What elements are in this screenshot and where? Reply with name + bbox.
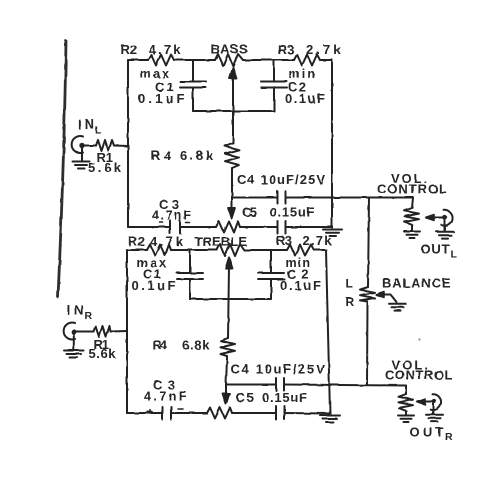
svg-text:R2: R2: [121, 42, 138, 57]
wire: balance rail lower: [366, 302, 369, 385]
wire: right rail (L): [331, 60, 333, 228]
wire: left rail (R): [126, 250, 128, 413]
capacitor C5 (R): [276, 406, 285, 420]
svg-text:0.1uF: 0.1uF: [138, 91, 185, 106]
svg-text:0.1uF: 0.1uF: [132, 278, 176, 293]
output jack OUT_R: [431, 394, 441, 414]
svg-text:4.7k: 4.7k: [150, 234, 184, 249]
resistor R4 (L): [225, 143, 239, 168]
svg-text:4.7nF: 4.7nF: [152, 209, 191, 223]
potentiometer TREBLE (L): [216, 222, 240, 233]
svg-text:C4 10uF/25V: C4 10uF/25V: [237, 172, 325, 187]
resistor R2 (R): [147, 245, 171, 256]
ground at OUT_L: [437, 232, 454, 239]
svg-text:5.6k: 5.6k: [89, 346, 117, 361]
svg-text:4.7k: 4.7k: [149, 42, 182, 57]
svg-text:0.1uF: 0.1uF: [280, 278, 321, 293]
wire: R4 to C4 node (R): [226, 358, 227, 385]
svg-text:OUT: OUT: [410, 425, 444, 440]
ground at BALANCE wiper: [389, 304, 406, 311]
wire: top bus segments (L): [128, 59, 332, 61]
svg-text:BALANCE: BALANCE: [382, 276, 451, 291]
svg-text:R3: R3: [276, 233, 292, 248]
svg-text:L: L: [95, 125, 102, 137]
wiper arrow to bottom pot (R): [223, 385, 230, 405]
wiper arrow of BALANCE pot: [376, 292, 397, 302]
ground at IN_L: [73, 148, 90, 169]
resistor R3 (R): [287, 245, 314, 256]
wiper arrow of TREBLE pot (R): [226, 258, 233, 339]
svg-text:R4: R4: [151, 148, 172, 163]
resistor R1 (L): [96, 140, 114, 151]
svg-text:CONTROL: CONTROL: [377, 182, 447, 197]
wire: bottom bus (L): [128, 226, 332, 228]
capacitor C4 (L): [278, 192, 286, 204]
capacitor C3 (L): [170, 221, 180, 234]
svg-text:C5: C5: [242, 205, 257, 220]
svg-text:0.15uF: 0.15uF: [262, 390, 307, 405]
svg-text:0.15uF: 0.15uF: [270, 205, 315, 220]
potentiometer VOL CONTROL (R): [399, 386, 414, 415]
svg-text:BASS: BASS: [211, 42, 248, 57]
ground at right rail (L): [323, 230, 342, 237]
svg-text:R4: R4: [153, 337, 168, 352]
capacitor C2 (L): [261, 60, 287, 111]
svg-text:L: L: [451, 249, 458, 261]
C3 tick marks (R): [148, 409, 183, 414]
ground below VOL pot (R): [398, 416, 414, 423]
scan artifact: faint speck: [418, 338, 420, 340]
capacitor C3 (R): [162, 407, 171, 420]
wire: top bus segments (R): [127, 249, 326, 251]
resistor R2 (L): [148, 55, 174, 66]
svg-text:R: R: [346, 295, 355, 309]
potentiometer VOL CONTROL (L): [405, 198, 420, 231]
potentiometer TREBLE (R): [217, 244, 244, 256]
svg-text:L: L: [346, 277, 353, 291]
ground at right rail (R): [320, 416, 340, 423]
svg-text:5.6k: 5.6k: [88, 160, 122, 175]
svg-text:6.8k: 6.8k: [182, 337, 210, 352]
wire: top-left rail (L): [127, 60, 129, 227]
wire: C1-C2 bottom link (L): [193, 110, 274, 112]
wiper arrow of BASS pot (L): [230, 68, 237, 144]
svg-text:0.1uF: 0.1uF: [285, 91, 325, 106]
wire: C1-C2 bottom link (R): [190, 298, 271, 300]
wire: C4 / vol-control bus (R): [226, 385, 406, 386]
svg-text:R2: R2: [128, 234, 145, 249]
svg-text:IN: IN: [78, 117, 95, 132]
ground at IN_R: [64, 334, 84, 358]
C3 tick marks (L): [160, 222, 190, 225]
potentiometer treble (R bottom): [207, 408, 232, 419]
potentiometer BASS (L): [215, 54, 243, 66]
svg-text:R: R: [85, 310, 93, 322]
svg-text:6.8k: 6.8k: [180, 148, 214, 163]
output jack OUT_L: [442, 210, 452, 231]
wire: balance rail upper: [368, 198, 369, 288]
wire: bottom bus (R): [127, 412, 330, 415]
capacitor C1 (R): [177, 250, 203, 299]
capacitor C5 (L): [278, 221, 286, 234]
potentiometer BALANCE: [360, 287, 375, 302]
svg-text:R3: R3: [278, 42, 295, 57]
ground below VOL pot (L): [404, 232, 420, 239]
resistor R3 (L): [294, 55, 320, 66]
svg-text:TREBLE: TREBLE: [195, 234, 248, 249]
svg-text:2.7k: 2.7k: [303, 233, 333, 248]
wiper arrow to TREBLE pot (L): [229, 198, 236, 220]
svg-text:OUT: OUT: [421, 242, 450, 257]
svg-text:IN: IN: [67, 303, 84, 318]
capacitor C2 (R): [258, 250, 284, 299]
wiper arrow of VOL pot (L): [426, 215, 447, 220]
svg-text:C5: C5: [236, 390, 255, 405]
capacitor C4 (R): [276, 378, 284, 391]
input jack IN_R: [64, 323, 127, 340]
svg-text:C4 10uF/25V: C4 10uF/25V: [231, 361, 325, 376]
resistor R1 (R): [94, 326, 111, 337]
wiper arrow of VOL pot (R): [417, 399, 436, 404]
svg-text:R: R: [445, 431, 453, 443]
resistor R4 (R): [221, 338, 236, 358]
wire: C4 / vol-control bus (L): [232, 197, 413, 199]
wire: R4 to C4 node (L): [231, 168, 233, 198]
wire: right rail (R): [326, 250, 330, 414]
input jack IN_L: [72, 136, 128, 153]
ground at OUT_R: [426, 415, 443, 422]
capacitor C1 (L): [180, 60, 206, 111]
svg-text:4.7nF: 4.7nF: [144, 390, 187, 404]
scan artifact: thick left border line: [58, 41, 66, 297]
svg-text:CONTROL: CONTROL: [385, 368, 453, 383]
svg-text:2.7k: 2.7k: [306, 42, 341, 57]
